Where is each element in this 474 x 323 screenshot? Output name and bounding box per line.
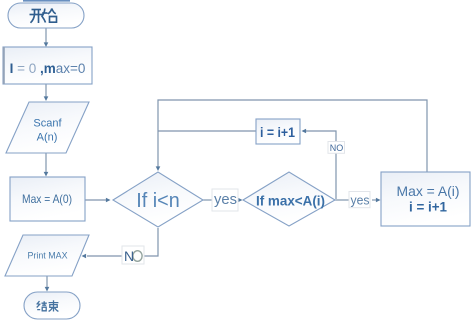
svg-text:If i<n: If i<n — [136, 189, 180, 212]
svg-text:i = i+1: i = i+1 — [409, 199, 447, 215]
svg-text:yes: yes — [351, 193, 370, 208]
svg-text:A(n): A(n) — [37, 132, 58, 144]
svg-text:Max = A(0): Max = A(0) — [22, 192, 72, 206]
svg-text:N: N — [124, 248, 134, 264]
svg-text:Print MAX: Print MAX — [28, 250, 68, 260]
svg-text:i = i+1: i = i+1 — [260, 125, 295, 140]
svg-text:Max = A(i): Max = A(i) — [397, 183, 460, 199]
svg-text:NO: NO — [330, 143, 344, 153]
svg-text:Scanf: Scanf — [33, 118, 62, 130]
svg-text:yes: yes — [214, 192, 237, 208]
svg-text:If max<A(i): If max<A(i) — [256, 193, 325, 209]
svg-text:I = 0 ,max=0: I = 0 ,max=0 — [10, 61, 86, 76]
